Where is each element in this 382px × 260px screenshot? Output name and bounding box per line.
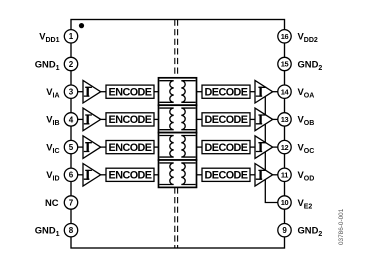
isolation barrier (bottom) [175,187,178,248]
svg-text:13: 13 [281,115,289,124]
svg-text:VOD: VOD [298,169,315,183]
output buffer A (three-state, Schmitt) [255,80,273,103]
DECODE block (channel D) [202,168,250,181]
svg-text:VDD1: VDD1 [39,31,59,45]
ENCODE block (channel C) [106,141,154,154]
pin 13 circle [278,113,291,126]
svg-text:6: 6 [69,171,74,180]
svg-text:VDD2: VDD2 [298,31,318,45]
svg-text:14: 14 [281,87,290,96]
svg-text:GND1: GND1 [35,58,60,72]
svg-text:VIA: VIA [46,86,59,100]
svg-text:10: 10 [281,198,289,207]
isolation barrier (top) [175,20,178,78]
pin 1 indicator dot [79,23,84,28]
input buffer A (Schmitt trigger) [83,80,101,103]
svg-text:VE2: VE2 [298,197,313,211]
wire DECODE to output buffer A [250,91,255,93]
wire output buffer B to pin 13 [273,118,285,120]
svg-text:VID: VID [46,169,59,183]
wire ENCODE to transformer B [154,118,159,120]
ENCODE block (channel B) [106,113,154,126]
wire DECODE to output buffer B [250,118,255,120]
pin 14 circle [278,85,291,98]
pin 1 circle [64,30,77,43]
input buffer B (Schmitt trigger) [83,108,101,131]
VE2 enable bus wire [265,92,284,203]
svg-text:DECODE: DECODE [205,114,248,126]
output buffer C (three-state, Schmitt) [255,136,273,159]
pin 3 circle [64,85,77,98]
wire transformer A to DECODE [197,91,203,93]
pin 8 circle [64,224,77,237]
input buffer C (Schmitt trigger) [83,136,101,159]
svg-text:VOA: VOA [298,86,315,100]
wire input buffer C to ENCODE [101,146,106,148]
svg-text:ENCODE: ENCODE [109,87,152,99]
svg-text:VIB: VIB [46,114,59,128]
svg-text:4: 4 [69,115,74,124]
DECODE block (channel B) [202,113,250,126]
wire input buffer B to ENCODE [101,118,106,120]
wire pin 6 to input buffer D [71,174,83,176]
pin 7 circle [64,196,77,209]
svg-text:3: 3 [69,88,74,97]
svg-text:ENCODE: ENCODE [109,114,152,126]
wire DECODE to output buffer C [250,146,255,148]
pin 2 circle [64,57,77,70]
svg-text:VIC: VIC [46,141,59,155]
transformer T3 (channel C) [159,133,197,160]
svg-text:ENCODE: ENCODE [109,142,152,154]
pin 16 circle [278,30,291,43]
pin 10 circle [278,196,291,209]
svg-text:GND2: GND2 [298,225,323,239]
DECODE block (channel A) [202,85,250,98]
svg-text:03786-0-001: 03786-0-001 [338,208,345,245]
transformer T4 (channel D) [159,160,197,187]
pin 9 circle [278,224,291,237]
DECODE block (channel C) [202,141,250,154]
wire pin 4 to input buffer B [71,118,83,120]
svg-text:16: 16 [281,32,289,41]
svg-text:DECODE: DECODE [205,87,248,99]
wire output buffer D to pin 11 [273,174,285,176]
package outline [71,20,285,249]
svg-text:1: 1 [69,32,74,41]
svg-text:2: 2 [69,60,74,69]
input buffer D (Schmitt trigger) [83,164,101,187]
output buffer B (three-state, Schmitt) [255,108,273,131]
wire input buffer D to ENCODE [101,174,106,176]
svg-text:ENCODE: ENCODE [109,170,152,182]
transformer T2 (channel B) [159,105,197,132]
svg-text:GND1: GND1 [35,225,60,239]
wire input buffer A to ENCODE [101,91,106,93]
wire ENCODE to transformer A [154,91,159,93]
svg-text:VOB: VOB [298,114,315,128]
wire ENCODE to transformer C [154,146,159,148]
svg-text:DECODE: DECODE [205,170,248,182]
svg-text:5: 5 [69,143,74,152]
wire output buffer C to pin 12 [273,146,285,148]
pin 4 circle [64,113,77,126]
svg-text:7: 7 [69,198,74,207]
pin 12 circle [278,140,291,153]
wire DECODE to output buffer D [250,174,255,176]
svg-text:12: 12 [281,143,289,152]
pin 6 circle [64,168,77,181]
output buffer D (three-state, Schmitt) [255,164,273,187]
pin 11 circle [278,168,291,181]
transformer T1 (channel A) [159,78,197,105]
svg-text:GND2: GND2 [298,58,323,72]
wire transformer D to DECODE [197,174,203,176]
wire transformer B to DECODE [197,118,203,120]
svg-text:VOC: VOC [298,141,315,155]
svg-text:11: 11 [281,171,288,180]
svg-text:NC: NC [45,197,59,208]
pin 5 circle [64,140,77,153]
svg-text:15: 15 [281,60,289,69]
svg-text:DECODE: DECODE [205,142,248,154]
wire transformer C to DECODE [197,146,203,148]
svg-text:8: 8 [69,226,74,235]
ENCODE block (channel D) [106,168,154,181]
ENCODE block (channel A) [106,85,154,98]
wire pin 5 to input buffer C [71,146,83,148]
pin 15 circle [278,57,291,70]
wire ENCODE to transformer D [154,174,159,176]
wire pin 3 to input buffer A [71,91,83,93]
wire output buffer A to pin 14 [273,91,285,93]
